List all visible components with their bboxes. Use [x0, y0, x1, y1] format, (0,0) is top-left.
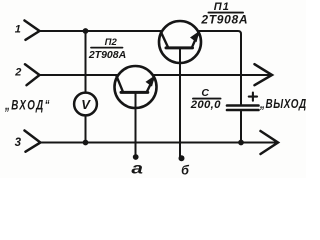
svg-text:3: 3: [15, 137, 22, 149]
svg-text:П2: П2: [105, 37, 118, 48]
svg-text:2: 2: [14, 67, 21, 79]
svg-text:а: а: [131, 159, 143, 177]
svg-text:200,0: 200,0: [190, 99, 221, 111]
svg-text:„ВХОД“: „ВХОД“: [4, 97, 51, 113]
svg-text:С: С: [201, 87, 209, 99]
svg-text:2Т908А: 2Т908А: [200, 12, 248, 26]
svg-text:1: 1: [15, 24, 21, 36]
svg-text:2Т908А: 2Т908А: [88, 49, 126, 61]
svg-text:„ВЫХОД“: „ВЫХОД“: [259, 98, 306, 112]
svg-text:П1: П1: [214, 1, 230, 13]
svg-text:б: б: [181, 163, 190, 177]
svg-text:V: V: [81, 97, 91, 112]
